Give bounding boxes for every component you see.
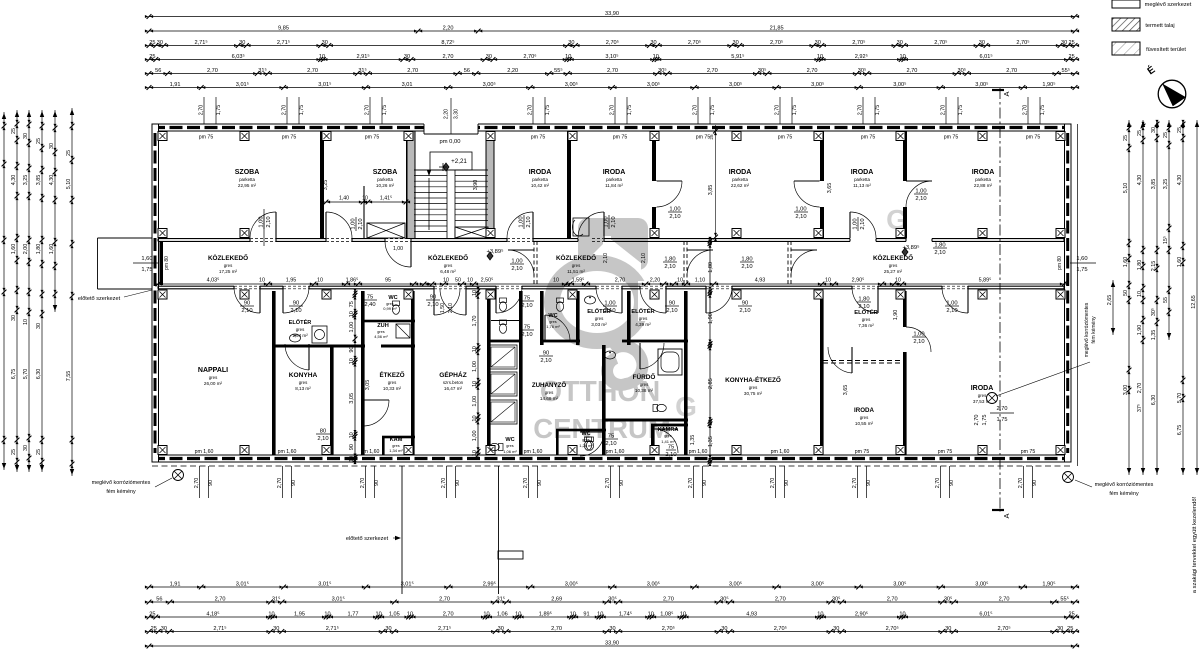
svg-text:3,00⁵: 3,00⁵ [565,81,578,88]
wall etkezo/gephaz [411,291,415,455]
svg-text:A: A [1002,513,1011,518]
section line A [999,88,1001,512]
svg-text:gres: gres [664,434,671,438]
svg-text:2,70: 2,70 [1137,383,1143,394]
stairwell east wall [486,131,494,239]
svg-text:1,00: 1,00 [853,218,859,229]
svg-text:3,25: 3,25 [323,180,329,191]
svg-text:30⁵: 30⁵ [608,595,617,602]
svg-text:pm 75: pm 75 [282,135,297,141]
svg-text:33,90: 33,90 [605,640,619,646]
corridor glass partition x788 [787,241,789,285]
door stairhall [410,241,412,267]
svg-text:gres: gres [506,444,513,448]
toilet wc small left [490,443,503,450]
wall wc small vert [556,430,559,455]
wall furdo bottom [602,419,688,422]
svg-text:21,85: 21,85 [770,25,784,31]
svg-text:30: 30 [498,626,504,632]
svg-text:90: 90 [1032,480,1038,486]
wall wc099 bottom [361,320,415,323]
svg-text:25: 25 [1068,611,1074,617]
wall wc small top [556,429,606,432]
svg-text:1,00: 1,00 [349,322,355,333]
svg-text:pm 75: pm 75 [1021,449,1036,455]
wall wc176 west [540,291,544,345]
svg-text:2,70: 2,70 [1006,68,1017,74]
svg-text:meglévő szerkezet: meglévő szerkezet [1145,2,1192,8]
svg-text:9,85: 9,85 [278,25,289,31]
svg-text:10: 10 [899,611,905,617]
svg-text:3,05: 3,05 [349,393,355,404]
svg-text:10: 10 [899,54,905,60]
svg-text:1,90: 1,90 [1137,325,1143,336]
svg-text:2,70: 2,70 [997,406,1008,412]
door iroda5 [906,180,932,182]
svg-text:30: 30 [23,445,29,451]
svg-text:2,70⁵: 2,70⁵ [774,625,787,632]
svg-text:2,70: 2,70 [707,68,718,74]
svg-text:3,00⁵: 3,00⁵ [565,580,578,587]
svg-text:IRODA: IRODA [851,169,874,176]
svg-text:1,00: 1,00 [393,246,403,252]
svg-text:30⁵: 30⁵ [832,595,841,602]
wall szoba2/stair [406,131,410,239]
door iroda1 [532,212,534,238]
svg-text:30: 30 [36,323,42,329]
svg-text:16,47 m²: 16,47 m² [444,386,463,391]
svg-text:2,70: 2,70 [693,105,699,116]
svg-text:2,70: 2,70 [688,478,694,489]
svg-text:90: 90 [291,480,297,486]
staircase U1 [414,169,488,171]
svg-text:IRODA: IRODA [529,169,552,176]
svg-text:90: 90 [742,301,748,307]
svg-text:6,30: 6,30 [1151,395,1157,406]
svg-text:1,75: 1,75 [299,105,305,116]
wall elter736/iroda east [903,291,907,455]
svg-text:10: 10 [570,611,576,617]
svg-text:2,10: 2,10 [290,308,301,314]
svg-text:2,20: 2,20 [444,109,450,119]
svg-text:10: 10 [817,54,823,60]
svg-text:10,33 m²: 10,33 m² [383,386,402,391]
svg-text:10,38 m²: 10,38 m² [635,388,654,393]
svg-text:25: 25 [1137,130,1143,136]
svg-text:15⁵: 15⁵ [1163,236,1169,244]
svg-text:6,01⁵: 6,01⁵ [979,610,992,617]
svg-text:3,30: 3,30 [454,109,460,119]
svg-text:6,75: 6,75 [1177,425,1183,436]
svg-text:90: 90 [349,444,355,450]
svg-text:30⁵: 30⁵ [658,67,667,74]
svg-text:0,99 m²: 0,99 m² [383,306,397,311]
wall wc176 east / zuhanyzo [576,291,580,345]
svg-text:2,10: 2,10 [526,216,532,227]
toilet wc099 [392,301,399,314]
left exterior wall [152,124,159,462]
svg-text:11,51 m²: 11,51 m² [567,269,585,274]
svg-text:2,10: 2,10 [666,308,677,314]
svg-text:1,80: 1,80 [858,297,869,303]
svg-text:10: 10 [349,311,355,317]
svg-text:parketta: parketta [239,177,255,182]
svg-text:2,70: 2,70 [607,68,618,74]
svg-text:2,70⁵: 2,70⁵ [688,39,701,46]
svg-text:14,68 m²: 14,68 m² [540,396,559,401]
svg-text:2,10: 2,10 [521,303,532,309]
svg-text:KONYHA: KONYHA [289,372,318,379]
svg-text:meglévő korróziómentes: meglévő korróziómentes [92,480,151,486]
svg-text:2,10: 2,10 [795,214,806,220]
svg-text:3,01⁵: 3,01⁵ [236,580,249,587]
window dim pairs top [203,97,205,124]
svg-text:A: A [1002,91,1011,96]
svg-text:2,70: 2,70 [663,596,674,602]
door furdo [639,343,641,369]
svg-text:2,70⁵: 2,70⁵ [997,625,1010,632]
svg-text:25: 25 [36,138,42,144]
svg-text:ÉTKEZŐ: ÉTKEZŐ [379,371,404,379]
dim chain top row 33,90 [149,16,1075,18]
svg-text:2,70: 2,70 [906,68,917,74]
svg-text:FÜRDŐ: FÜRDŐ [633,372,656,381]
svg-text:10: 10 [708,239,714,245]
svg-text:25: 25 [1163,132,1169,138]
svg-text:2,70: 2,70 [199,105,205,116]
dim chain bottom row 3 [149,616,1075,618]
door eloter303 [621,287,623,313]
svg-text:1,75: 1,75 [1076,267,1087,273]
svg-text:szrs.beton: szrs.beton [443,380,464,385]
svg-text:1,00: 1,00 [351,218,357,229]
svg-text:25,27 m²: 25,27 m² [884,269,903,274]
svg-text:2,10: 2,10 [521,332,532,338]
svg-text:30: 30 [721,626,727,632]
pillar boxes bottom row [158,446,167,455]
svg-text:2,10: 2,10 [860,218,866,229]
wall kam vert [382,437,385,455]
toilet iroda5 area [586,437,593,450]
svg-text:30⁵: 30⁵ [1151,308,1157,316]
svg-text:1,90⁵: 1,90⁵ [1042,580,1055,587]
svg-text:2,70⁶: 2,70⁶ [523,53,536,60]
svg-text:meglévő korróziómentes: meglévő korróziómentes [1095,482,1154,488]
svg-text:10: 10 [708,289,714,295]
chimney east [1063,472,1074,483]
wall elter bottom2 [381,345,415,348]
door eloter439 [665,287,667,313]
right exterior wall [1065,124,1072,462]
svg-text:parketta: parketta [854,177,870,182]
svg-text:30⁵: 30⁵ [858,67,867,74]
svg-text:30: 30 [486,54,492,60]
svg-text:5,70: 5,70 [23,369,29,380]
svg-text:2,10: 2,10 [664,264,675,270]
svg-text:30: 30 [650,40,656,46]
corridor partition x534 [533,241,535,285]
tub furdo [658,349,682,375]
svg-text:2,70: 2,70 [277,478,283,489]
bottom canopy tab [498,551,523,559]
svg-text:10,55 m²: 10,55 m² [855,421,874,426]
corridor door x684 [687,249,713,251]
svg-text:3,00⁵: 3,00⁵ [729,580,742,587]
svg-text:56: 56 [464,68,470,74]
svg-text:90: 90 [949,480,955,486]
svg-text:8,13 m²: 8,13 m² [295,386,311,391]
svg-text:90: 90 [702,480,708,486]
svg-text:10: 10 [324,611,330,617]
svg-text:2,90⁵: 2,90⁵ [855,610,868,617]
door iroda3753 [906,327,931,352]
svg-text:90: 90 [455,480,461,486]
svg-text:90: 90 [543,351,549,357]
west door bar [160,241,164,285]
svg-text:pm 75: pm 75 [944,135,959,141]
svg-text:25: 25 [1068,54,1074,60]
shower cell 3 [489,400,517,424]
svg-text:3,00⁵: 3,00⁵ [483,81,496,88]
svg-text:1,80: 1,80 [1137,260,1143,271]
wall wet row bottom b [540,340,580,343]
svg-text:25: 25 [1067,626,1073,632]
svg-text:1,80: 1,80 [708,262,714,273]
svg-text:2,70: 2,70 [523,478,529,489]
svg-text:2,10: 2,10 [913,339,924,345]
svg-text:gres: gres [639,316,648,321]
svg-text:30: 30 [322,40,328,46]
svg-text:1,60: 1,60 [141,256,152,262]
svg-text:gres: gres [299,380,308,385]
svg-text:10: 10 [708,419,714,425]
svg-text:2,70: 2,70 [887,596,898,602]
svg-text:parketta: parketta [377,177,393,182]
svg-text:2,70: 2,70 [215,596,226,602]
svg-text:30⁵: 30⁵ [958,67,967,74]
svg-text:90: 90 [784,480,790,486]
wc1055 fixture [789,299,791,301]
svg-text:90: 90 [866,480,872,486]
svg-text:10: 10 [349,456,355,462]
pillar boxes corridor top [158,229,167,238]
svg-text:30: 30 [239,40,245,46]
svg-text:termett talaj: termett talaj [1145,23,1174,29]
svg-text:25: 25 [1068,40,1074,46]
wall eloter439 west [627,291,631,345]
svg-text:10: 10 [708,342,714,348]
stairwell west wall [407,131,415,239]
svg-text:31⁵: 31⁵ [258,67,267,74]
svg-text:30: 30 [23,133,29,139]
svg-text:90: 90 [537,480,543,486]
svg-text:10,26 m²: 10,26 m² [376,183,395,188]
svg-text:11,13 m²: 11,13 m² [853,183,871,188]
dim chain top row 6 [149,87,1075,89]
corridor upper wall [158,238,250,240]
svg-text:1,08⁵: 1,08⁵ [660,610,673,617]
svg-text:3,00⁵: 3,00⁵ [975,580,988,587]
svg-text:2,10: 2,10 [739,308,750,314]
svg-text:2,70: 2,70 [852,478,858,489]
svg-text:fém kémény: fém kémény [1091,316,1097,344]
svg-text:25: 25 [36,449,42,455]
svg-text:WC: WC [548,313,557,319]
wall zuh/furdo [602,345,606,455]
toilet wc small2 [584,437,591,450]
svg-text:90: 90 [430,295,436,301]
svg-text:1,41⁵: 1,41⁵ [380,196,392,202]
svg-text:1,89⁵: 1,89⁵ [539,610,552,617]
svg-text:2,10: 2,10 [317,436,328,442]
svg-text:gres: gres [595,316,604,321]
svg-text:90: 90 [619,480,625,486]
chimney mid-right [987,393,998,404]
svg-text:2,10: 2,10 [448,303,454,313]
svg-text:25: 25 [149,611,155,617]
dim chain top row 5 [149,73,1075,75]
svg-text:10: 10 [268,611,274,617]
svg-text:3,00⁵: 3,00⁵ [893,81,906,88]
svg-text:25: 25 [11,449,17,455]
svg-text:fém kémény: fém kémény [106,489,136,495]
svg-text:25: 25 [151,626,157,632]
svg-text:80: 80 [320,429,326,435]
svg-text:3,65: 3,65 [843,385,849,396]
door iroda1055 [851,347,853,373]
door wc-zuh b [465,289,467,315]
svg-text:1,75: 1,75 [545,105,551,116]
svg-text:1,34 m²: 1,34 m² [389,448,403,453]
svg-text:1,91: 1,91 [170,82,181,88]
svg-text:SZOBA: SZOBA [235,169,260,176]
svg-text:1,35: 1,35 [708,436,714,447]
svg-text:3,01: 3,01 [402,82,413,88]
svg-text:10: 10 [483,611,489,617]
svg-text:95: 95 [385,278,391,284]
svg-text:1,75: 1,75 [710,105,716,116]
svg-text:2,70: 2,70 [194,478,200,489]
svg-text:5,10: 5,10 [1123,183,1129,194]
svg-text:55⁵: 55⁵ [554,67,563,74]
corridor door x788 [791,249,817,251]
svg-text:30: 30 [833,626,839,632]
section mark A top [992,89,1004,91]
north arrow [1158,80,1186,108]
svg-text:30: 30 [404,54,410,60]
door stack iroda2 [604,215,618,229]
svg-text:30⁵: 30⁵ [944,595,953,602]
stair shaft crossed box [367,223,405,238]
svg-text:1,00: 1,00 [511,259,522,265]
svg-text:75: 75 [524,325,530,331]
svg-text:a szakági tervekkel együtt kez: a szakági tervekkel együtt kezelendő! [1192,496,1198,593]
svg-text:KÖZLEKEDŐ: KÖZLEKEDŐ [428,253,468,262]
svg-text:pm 80: pm 80 [1057,256,1063,270]
svg-text:pm 80: pm 80 [164,256,170,270]
svg-text:2,69: 2,69 [551,596,562,602]
svg-text:50: 50 [1123,290,1129,296]
svg-text:2,70: 2,70 [407,68,418,74]
svg-text:4,30: 4,30 [49,175,55,186]
svg-text:2,65: 2,65 [1107,295,1113,306]
svg-text:KONYHA-ÉTKEZŐ: KONYHA-ÉTKEZŐ [725,375,781,384]
svg-text:25: 25 [66,150,72,156]
toilet furdo [653,404,666,411]
svg-text:22,88 m²: 22,88 m² [974,183,993,188]
bottom canopy [401,466,403,594]
svg-text:előtető szerkezet: előtető szerkezet [346,536,389,542]
dim chain top row 4 [149,59,1075,61]
svg-text:2,40: 2,40 [364,302,375,308]
wall nappali/konyha [272,291,276,455]
svg-text:pm 75: pm 75 [365,135,380,141]
svg-text:2,70: 2,70 [441,478,447,489]
wall kamra west [651,425,655,455]
svg-text:parketta: parketta [606,177,622,182]
door wc small [580,431,604,433]
svg-text:1,80: 1,80 [36,244,42,255]
door eloter-left [282,287,284,313]
wall elter/wc vert [361,291,365,455]
svg-text:pm 1,60: pm 1,60 [771,449,790,455]
door iroda4 [849,212,851,238]
svg-text:55⁵: 55⁵ [1060,595,1069,602]
svg-text:1,80: 1,80 [741,257,752,263]
left canopy [98,237,153,239]
iroda3 east gap [820,181,825,207]
svg-text:1,06: 1,06 [497,611,508,617]
svg-text:2,20: 2,20 [443,25,454,31]
svg-text:WC: WC [581,431,590,437]
svg-text:2,70⁵: 2,70⁵ [934,39,947,46]
svg-text:25: 25 [709,134,714,140]
svg-text:pm 1,60: pm 1,60 [278,449,297,455]
door iroda3 west [656,180,682,182]
svg-text:3,85: 3,85 [708,185,714,196]
svg-text:30: 30 [273,626,279,632]
svg-text:3,85: 3,85 [1151,179,1157,190]
door szoba2 [325,212,327,238]
svg-text:30: 30 [979,40,985,46]
svg-text:3,65: 3,65 [827,183,833,194]
svg-text:KÖZLEKEDŐ: KÖZLEKEDŐ [208,253,248,262]
door stack iroda1 [519,215,533,229]
svg-text:ZUHANYZÓ: ZUHANYZÓ [532,381,567,389]
svg-text:56: 56 [155,68,161,74]
svg-text:1,35: 1,35 [1151,330,1157,341]
entry dims [450,98,452,134]
svg-text:2,92⁵: 2,92⁵ [855,53,868,60]
svg-text:91: 91 [583,611,589,617]
svg-text:2,20: 2,20 [650,278,661,284]
svg-text:30: 30 [157,40,163,46]
svg-text:1,90: 1,90 [708,313,714,324]
svg-text:2,90⁵: 2,90⁵ [852,278,865,284]
svg-text:1,95: 1,95 [294,611,305,617]
svg-text:2,10: 2,10 [241,308,252,314]
svg-text:17,25 m²: 17,25 m² [219,269,238,274]
svg-text:25: 25 [149,40,155,46]
svg-text:1,75: 1,75 [792,105,798,116]
svg-text:1,00: 1,00 [913,332,924,338]
svg-text:31⁵: 31⁵ [358,67,367,74]
basin eloter303 [585,296,596,304]
wall iroda3/iroda4 [820,131,824,239]
svg-text:gres: gres [582,438,589,442]
dim chain top row 2 [149,30,1075,32]
svg-text:GÉPHÁZ: GÉPHÁZ [439,370,466,379]
